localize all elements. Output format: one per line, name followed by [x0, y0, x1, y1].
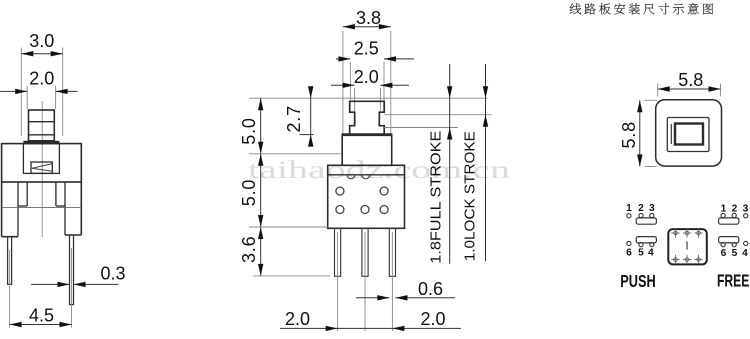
svg-text:2.0: 2.0 — [29, 69, 54, 89]
svg-text:0.3: 0.3 — [100, 264, 125, 284]
svg-text:3: 3 — [649, 203, 655, 214]
dimension 1.8 full stroke — [429, 64, 453, 264]
side main body — [328, 165, 405, 228]
top view tab line — [670, 124, 672, 144]
svg-text:2.0: 2.0 — [354, 67, 379, 87]
front plunger — [29, 110, 55, 141]
side pins — [335, 228, 396, 276]
dimension 0.6 pin width — [356, 279, 455, 301]
side notch semicircles — [347, 175, 370, 179]
dimension 0.3 pin width — [31, 264, 126, 288]
push schematic bottom contacts — [627, 237, 657, 247]
front collar band — [23, 141, 59, 144]
title 线路板安装尺寸示意图 — [570, 3, 713, 14]
front legs and notches — [2, 182, 82, 237]
svg-text:1.8FULL STROKE: 1.8FULL STROKE — [429, 130, 445, 263]
dimension 5.8 top width — [658, 70, 721, 96]
svg-text:2.0: 2.0 — [285, 309, 310, 329]
svg-text:6: 6 — [626, 248, 632, 259]
free schematic bottom contacts — [719, 237, 748, 247]
footprint center mark — [686, 241, 688, 249]
front view centerline — [41, 101, 43, 237]
svg-text:4: 4 — [648, 248, 654, 259]
svg-text:0.6: 0.6 — [418, 279, 443, 299]
push schematic pin numbers 1 2 3 — [626, 203, 655, 214]
front left pin — [8, 237, 12, 285]
footprint outline — [668, 229, 707, 264]
front right pin — [70, 235, 74, 305]
free schematic pin numbers 6 5 4 — [721, 248, 749, 259]
free schematic pin numbers 1 2 3 — [721, 204, 749, 215]
svg-text:5.0: 5.0 — [239, 117, 259, 144]
svg-text:PUSH: PUSH — [620, 271, 656, 291]
dimension 2.5 cap width — [336, 39, 414, 101]
svg-text:2.0: 2.0 — [420, 309, 445, 329]
dimension 5.8 side height — [619, 100, 657, 166]
svg-text:4.5: 4.5 — [29, 306, 54, 326]
svg-text:3.6: 3.6 — [239, 236, 259, 263]
front body — [2, 144, 82, 182]
side body seam line — [328, 174, 405, 176]
svg-text:5.8: 5.8 — [678, 70, 703, 90]
dimension chain 5.0 5.0 3.6 — [239, 98, 341, 276]
svg-text:1.0LOCK STROKE: 1.0LOCK STROKE — [462, 131, 478, 261]
stroke reference lines — [249, 98, 492, 127]
svg-text:3.0: 3.0 — [29, 31, 54, 51]
side pin centerlines — [338, 232, 393, 331]
top view outer body — [656, 100, 722, 166]
svg-text:6: 6 — [721, 248, 727, 259]
free schematic top contacts — [719, 213, 748, 224]
side upper block — [342, 134, 392, 165]
dimension 3.0 front plunger width — [21, 31, 62, 136]
svg-text:5: 5 — [732, 248, 738, 259]
side body holes — [336, 187, 388, 214]
push schematic pin numbers 6 5 4 — [626, 248, 654, 259]
front hatch box — [31, 162, 52, 173]
dimension 2.0 front plunger width — [0, 69, 78, 110]
front inner housing — [23, 144, 59, 174]
dimension 1.0 lock stroke — [462, 64, 488, 261]
dimension 2.7 plunger height — [284, 86, 313, 146]
dimension 2.0 2.0 pin pitch — [280, 309, 461, 331]
top view button — [675, 124, 703, 145]
svg-text:3.8: 3.8 — [356, 8, 381, 28]
front pin centerlines — [10, 248, 72, 328]
side plunger outline — [350, 101, 385, 134]
dimension 3.8 body width — [343, 8, 391, 134]
push schematic top contacts — [627, 213, 657, 224]
svg-text:3: 3 — [743, 204, 749, 215]
svg-text:2.5: 2.5 — [354, 39, 379, 59]
dimension 2.0 neck width — [331, 67, 409, 111]
svg-text:4: 4 — [742, 248, 748, 259]
svg-text:5.8: 5.8 — [619, 121, 639, 148]
svg-text:FREE: FREE — [717, 271, 750, 291]
footprint pin markers — [671, 228, 702, 264]
svg-text:2: 2 — [638, 203, 644, 214]
svg-text:5: 5 — [638, 248, 644, 259]
dimension 4.5 pin spacing — [10, 306, 72, 328]
svg-text:2.7: 2.7 — [284, 105, 304, 132]
top view inner frame — [667, 118, 709, 152]
svg-text:1: 1 — [626, 203, 632, 214]
svg-text:5.0: 5.0 — [239, 179, 259, 206]
